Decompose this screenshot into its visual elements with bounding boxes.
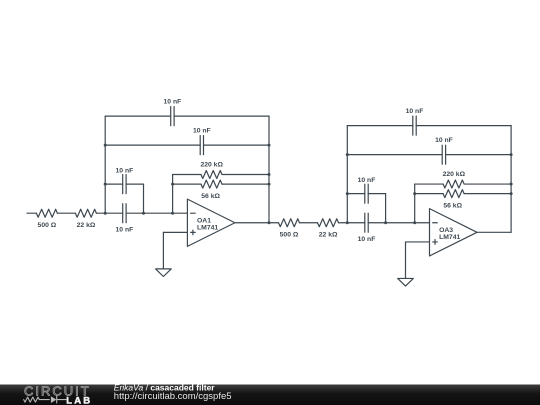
- wire: main signal path through C8: [347, 222, 365, 224]
- resistor R2 22 k&#937; (input): [75, 209, 96, 217]
- resistor R3 500 &#937; (coupling): [279, 219, 300, 227]
- ground symbol: [156, 269, 172, 277]
- svg-text:LM741: LM741: [439, 234, 460, 241]
- footer bar: [0, 385, 540, 405]
- svg-text:56 kΩ: 56 kΩ: [443, 203, 462, 210]
- wire: second feedback rail: [347, 154, 442, 156]
- capacitor C2 10 nF (second feedback): [199, 136, 201, 155]
- wire: R3 to R4: [300, 222, 318, 224]
- capacitor C4 10 nF (series in signal path): [122, 204, 124, 223]
- svg-text:10 nF: 10 nF: [358, 177, 376, 184]
- svg-text:220 kΩ: 220 kΩ: [443, 171, 466, 178]
- svg-text:500 Ω: 500 Ω: [280, 231, 299, 238]
- wire: non-inverting input to ground: [406, 241, 430, 243]
- svg-text:OA3: OA3: [439, 227, 453, 234]
- wire: right feedback vertical rail: [510, 126, 512, 233]
- svg-text:22 kΩ: 22 kΩ: [319, 231, 338, 238]
- resistor R5 220 k&#937; (feedback): [173, 174, 201, 176]
- wire: second feedback rail: [105, 144, 200, 146]
- wire: non-inverting input to ground: [163, 231, 187, 233]
- wire: right feedback vertical rail: [268, 116, 270, 223]
- wire: top feedback rail: [347, 125, 413, 127]
- op-amp OA3 non-inverting input marker: [433, 241, 438, 243]
- svg-text:10 nF: 10 nF: [358, 236, 376, 243]
- node: junction dots: [346, 153, 349, 156]
- ground symbol: [398, 278, 414, 286]
- svg-text:56 kΩ: 56 kΩ: [201, 193, 220, 200]
- wire: input lead: [27, 212, 36, 214]
- svg-text:10 nF: 10 nF: [406, 108, 424, 115]
- wire: feedback-resistor left drop: [414, 184, 416, 223]
- svg-text:LAB: LAB: [66, 396, 92, 405]
- capacitor C3 10 nF (parallel bypass): [122, 175, 124, 194]
- wire: upper cap-block branch: [347, 193, 365, 195]
- capacitor C1 10 nF (top feedback): [170, 107, 172, 126]
- capacitor C6 10 nF (second feedback): [441, 145, 443, 164]
- svg-text:220 kΩ: 220 kΩ: [200, 162, 223, 169]
- resistor R4 22 k&#937; (coupling): [318, 219, 339, 227]
- wire: cap-block right drop: [385, 194, 387, 223]
- svg-text:10 nF: 10 nF: [193, 128, 211, 135]
- node: junction dots: [104, 144, 107, 147]
- wire: feedback-resistor left drop: [172, 175, 174, 214]
- wire: R4 to node B: [339, 222, 348, 224]
- wire: cap-block right drop: [143, 184, 145, 213]
- wire: upper cap-block branch: [105, 183, 123, 185]
- svg-text:http://circuitlab.com/cgspfe5: http://circuitlab.com/cgspfe5: [114, 391, 232, 402]
- capacitor C7 10 nF (parallel bypass): [364, 184, 366, 203]
- op-amp OA3 inverting input marker: [433, 222, 438, 224]
- resistor R1 500 &#937; (input): [36, 209, 57, 217]
- wire: main signal path through C4: [105, 212, 123, 214]
- CircuitLab logo: resistor zigzag: [24, 397, 50, 402]
- svg-text:10 nF: 10 nF: [116, 226, 134, 233]
- wire: top feedback rail: [105, 115, 171, 117]
- resistor R6 56 k&#937; (feedback): [173, 183, 201, 185]
- op-amp OA3 LM741: [430, 209, 478, 256]
- wire: R2 to node A: [96, 212, 105, 214]
- svg-text:OA1: OA1: [197, 218, 211, 225]
- svg-text:10 nF: 10 nF: [164, 99, 182, 106]
- svg-text:22 kΩ: 22 kΩ: [77, 222, 96, 229]
- wire: OA1 output to R3: [235, 222, 279, 224]
- wire: R1 to R2: [57, 212, 75, 214]
- svg-text:10 nF: 10 nF: [116, 167, 134, 174]
- svg-text:500 Ω: 500 Ω: [38, 222, 57, 229]
- wire: left vertical node rail x=347: [346, 126, 348, 223]
- svg-text:LM741: LM741: [197, 225, 218, 232]
- op-amp OA1 non-inverting input marker: [191, 231, 196, 233]
- op-amp OA1 inverting input marker: [191, 212, 196, 214]
- wire: OA3 output to feedback rail: [477, 231, 511, 233]
- capacitor C5 10 nF (top feedback): [412, 116, 414, 135]
- resistor R7 220 k&#937; (feedback): [415, 183, 443, 185]
- svg-text:10 nF: 10 nF: [435, 137, 453, 144]
- CircuitLab logo: diode symbol: [51, 396, 57, 403]
- wire: left vertical node rail x=105: [104, 116, 106, 213]
- capacitor C8 10 nF (series in signal path): [364, 213, 366, 232]
- op-amp OA1 LM741: [187, 199, 235, 246]
- resistor R8 56 k&#937; (feedback): [415, 193, 443, 195]
